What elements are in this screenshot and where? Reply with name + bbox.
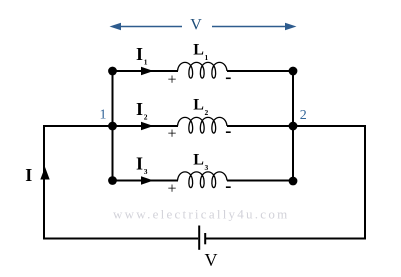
battery plate long (198, 226, 200, 250)
node dot (branch1 right) (289, 67, 298, 76)
inductor L3 (178, 172, 228, 188)
svg-text:L: L (193, 152, 204, 169)
svg-text:2: 2 (144, 113, 148, 122)
measurement arrow V (top) (110, 23, 297, 31)
node dot (branch3 right) (289, 177, 298, 186)
svg-text:L: L (193, 97, 204, 114)
wire left bus (112, 71, 114, 181)
svg-text:+: + (167, 72, 176, 89)
svg-text:2: 2 (205, 108, 209, 117)
arrow I (left wire, up) (40, 167, 49, 180)
minus sign branch 2 (226, 131, 231, 133)
svg-text:1: 1 (100, 108, 107, 123)
svg-text:3: 3 (144, 167, 148, 176)
wire outer loop right (205, 126, 365, 239)
inductor L2 (178, 117, 228, 133)
svg-text:I: I (25, 165, 32, 185)
svg-text:I: I (136, 154, 143, 174)
node 1 dot (108, 122, 117, 131)
battery plate short (204, 233, 206, 244)
wire outer loop left (44, 126, 198, 239)
wire branch 1 (113, 70, 179, 72)
svg-text:1: 1 (205, 53, 209, 62)
svg-text:L: L (193, 42, 204, 59)
svg-text:www.electrically4u.com: www.electrically4u.com (113, 207, 289, 222)
wire branch 3 (113, 180, 179, 182)
svg-text:I: I (136, 99, 143, 119)
inductor L1 (178, 62, 228, 78)
svg-text:3: 3 (205, 163, 209, 172)
minus sign branch 1 (226, 77, 231, 79)
arrow I1 (141, 67, 154, 75)
arrow I3 (141, 176, 154, 184)
wire branch 2 (113, 125, 179, 127)
svg-text:+: + (167, 126, 176, 143)
svg-text:I: I (136, 44, 143, 64)
svg-text:V: V (205, 250, 218, 270)
svg-text:1: 1 (144, 58, 148, 67)
node dot (branch3 left) (108, 176, 117, 185)
arrow I2 (141, 122, 154, 130)
svg-text:+: + (167, 181, 176, 198)
node dot 1 (branch1 left) (108, 67, 117, 76)
svg-text:2: 2 (300, 108, 307, 123)
svg-text:V: V (190, 17, 202, 34)
wire right bus (292, 71, 294, 181)
node 2 dot (289, 122, 298, 131)
minus sign branch 3 (226, 186, 231, 188)
